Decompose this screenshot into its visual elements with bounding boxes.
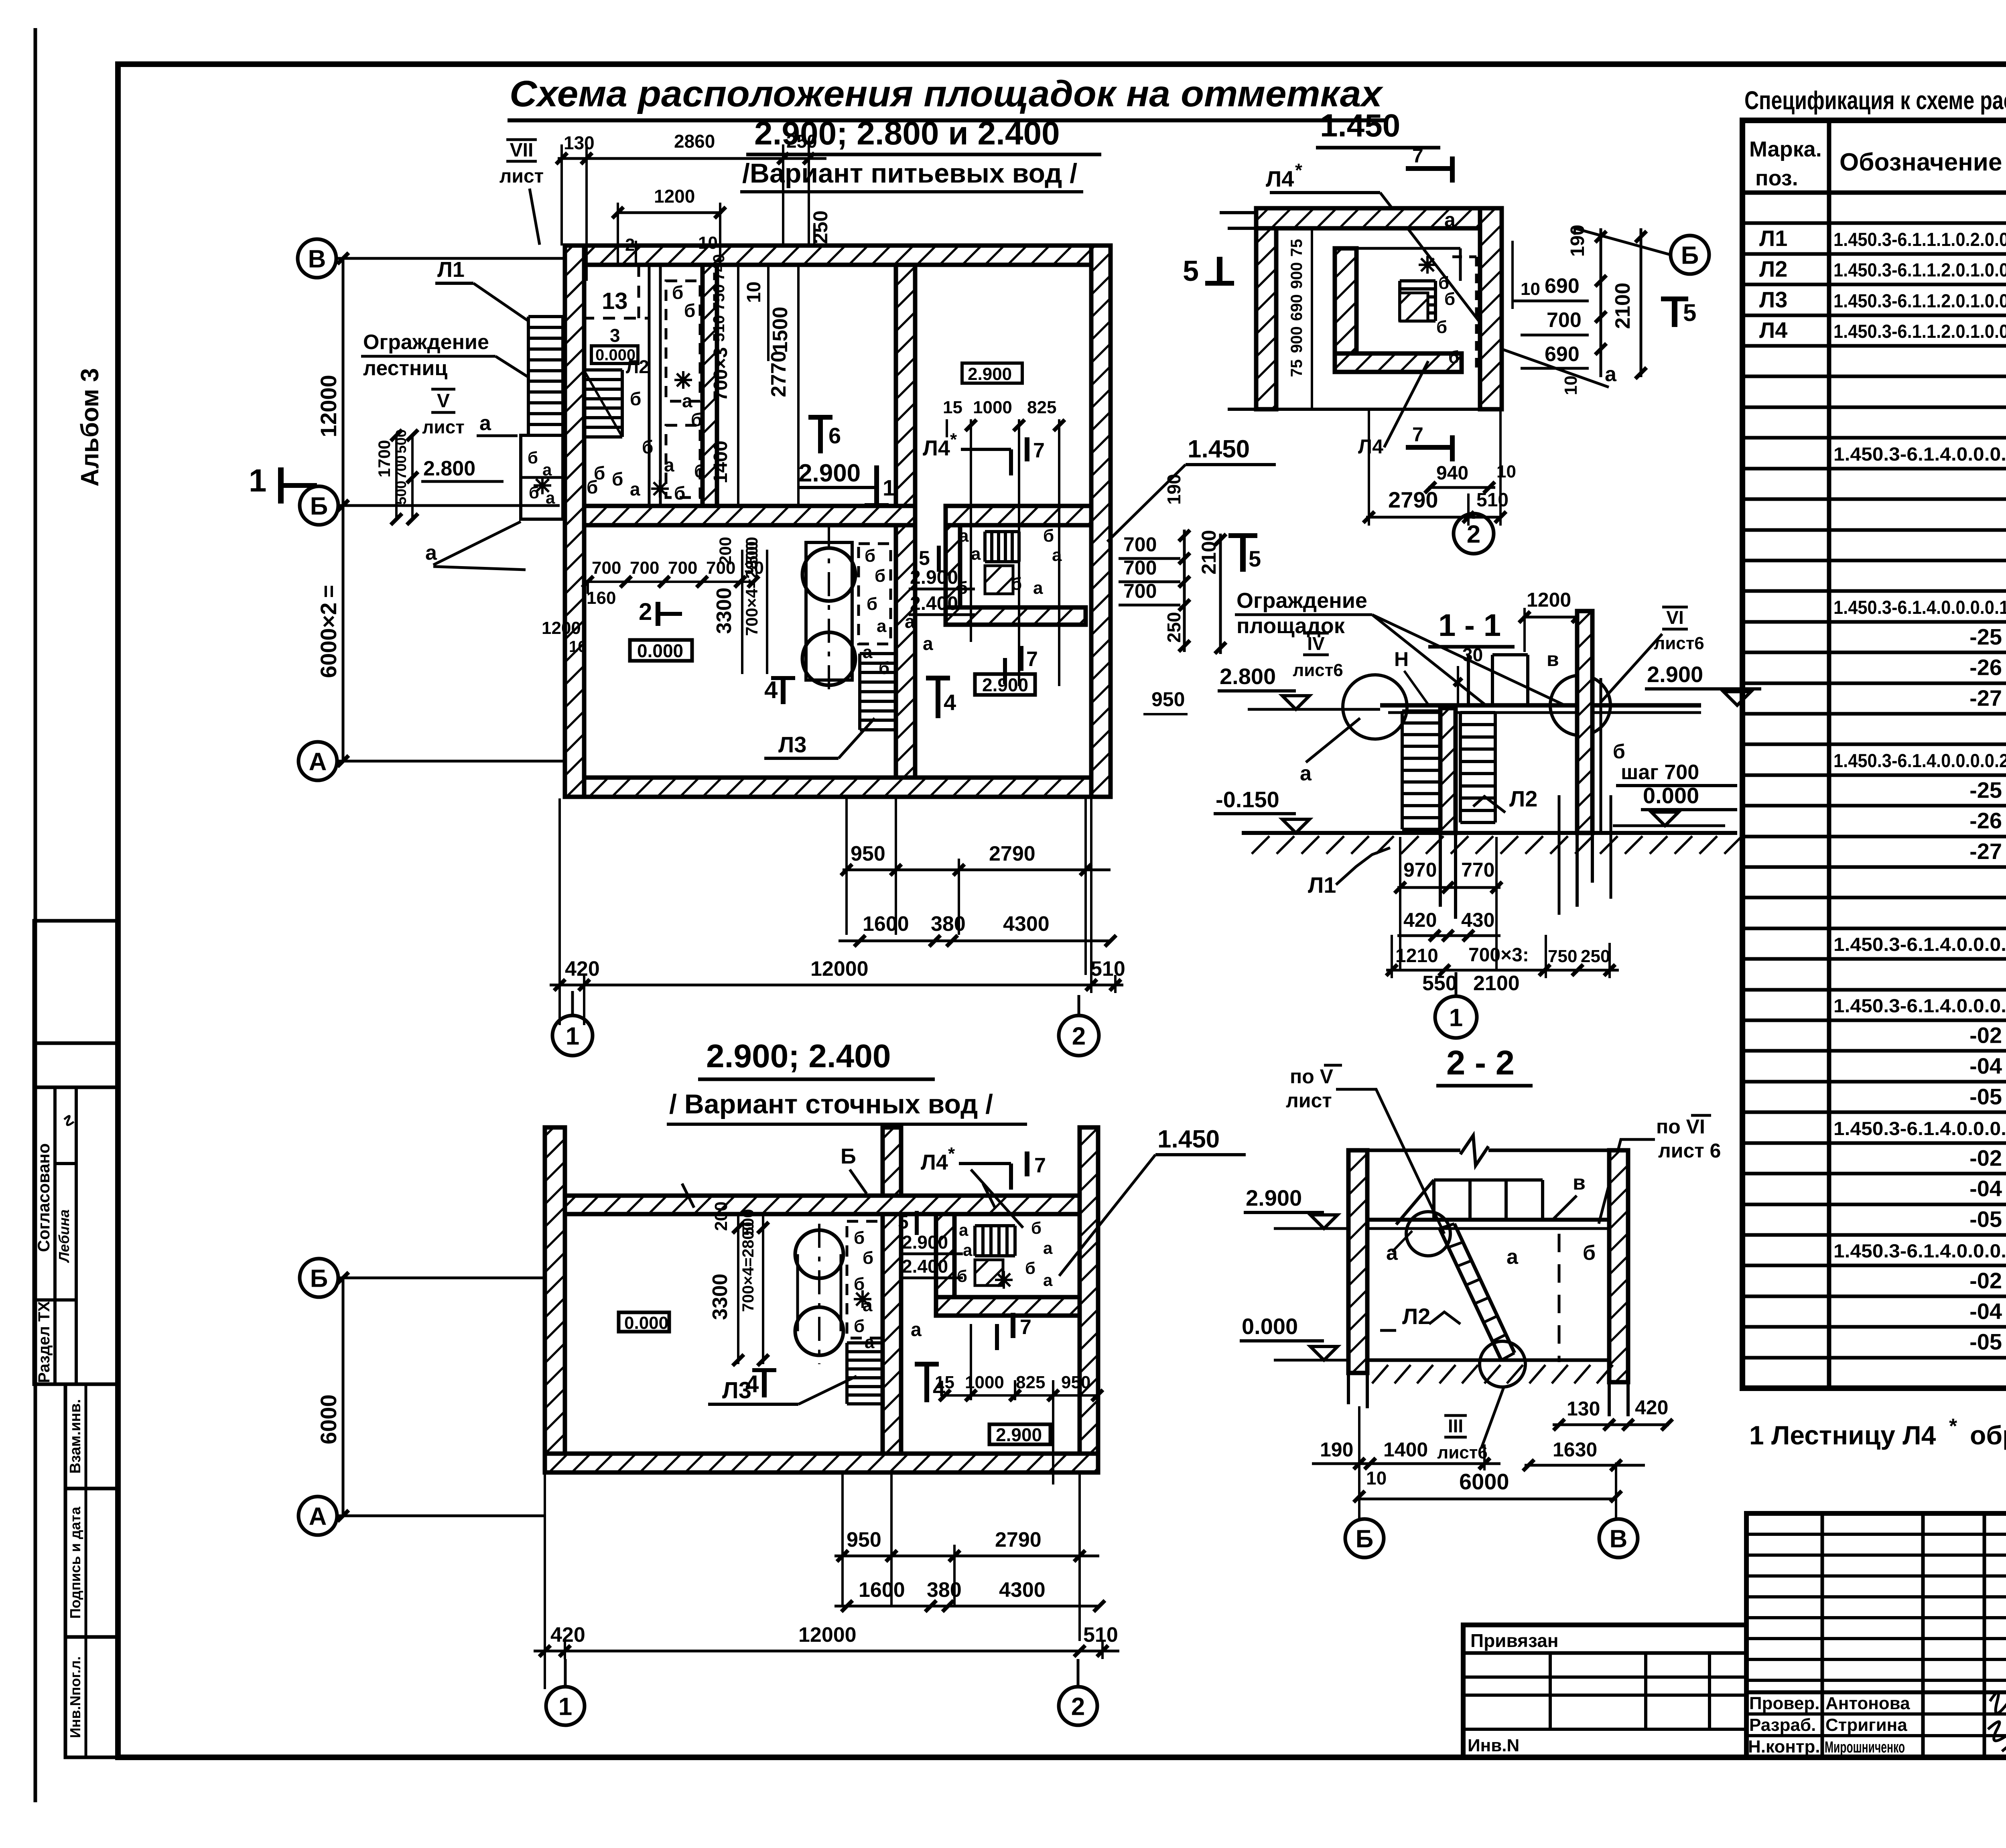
- spec table outer frame: [1742, 120, 2006, 1388]
- plan1 inner vertical wall upper: [896, 265, 915, 506]
- section 2-2 top line with break: [1348, 1149, 1460, 1152]
- svg-text:200: 200: [716, 537, 735, 565]
- svg-text:в: в: [1547, 648, 1559, 670]
- svg-text:б: б: [612, 469, 623, 489]
- section 2-2 railing grid: [1434, 1178, 1543, 1182]
- svg-text:лист: лист: [1286, 1089, 1332, 1112]
- svg-text:550: 550: [1422, 972, 1457, 995]
- svg-text:поз.: поз.: [1755, 166, 1798, 190]
- plan1 axis circle 2: [1059, 1015, 1099, 1056]
- svg-text:б: б: [672, 282, 683, 303]
- plan2 landing stair top right: [975, 1224, 1015, 1227]
- svg-text:*: *: [1949, 1415, 1957, 1438]
- plan1 outer wall top: [565, 246, 1111, 265]
- svg-text:б: б: [854, 1228, 865, 1248]
- svg-text:Л4: Л4: [1266, 166, 1294, 191]
- svg-text:2790: 2790: [1388, 487, 1438, 512]
- plan1 landing-room west wall: [946, 525, 960, 607]
- svg-text:б: б: [1613, 740, 1625, 763]
- plan1 hatched partition band: [703, 265, 717, 506]
- svg-text:2790: 2790: [989, 842, 1035, 865]
- svg-text:500: 500: [742, 537, 761, 565]
- plan2 snowflake landing: [995, 1271, 1013, 1289]
- plan1 inner vertical wall lower: [896, 525, 915, 778]
- detail 1.450 axis circle 2: [1454, 514, 1494, 554]
- svg-text:б: б: [684, 300, 695, 321]
- svg-text:в: в: [1573, 1171, 1586, 1194]
- svg-text:Спецификация к схеме расположе: Спецификация к схеме расположения площад…: [1744, 86, 2006, 115]
- svg-text:а: а: [1300, 762, 1312, 785]
- svg-text:380: 380: [931, 912, 966, 936]
- svg-text:Л2: Л2: [1402, 1304, 1430, 1329]
- section 1-1 platform line: [1380, 703, 1701, 708]
- section 1-1 right stair flight: [1459, 713, 1462, 822]
- svg-text:/Вариант питьевых вод /: /Вариант питьевых вод /: [742, 158, 1077, 189]
- svg-text:75: 75: [1288, 239, 1306, 257]
- svg-text:6: 6: [828, 423, 841, 448]
- plan1 small left dims: [395, 435, 398, 519]
- svg-text:10: 10: [743, 282, 765, 303]
- svg-text:1: 1: [566, 1022, 579, 1050]
- plan1 axis circle Б: [300, 486, 338, 525]
- svg-text:*: *: [948, 1144, 955, 1164]
- plan1 external stair L1: [527, 317, 530, 435]
- svg-text:250: 250: [1163, 612, 1184, 643]
- svg-text:А: А: [309, 748, 327, 776]
- svg-text:а: а: [425, 541, 437, 565]
- svg-text:250: 250: [786, 131, 817, 152]
- plan1 tank circle 2: [802, 632, 855, 685]
- svg-text:1000: 1000: [973, 398, 1012, 417]
- title block: upper small-cell grid: [1746, 1513, 2006, 1757]
- svg-text:690: 690: [1545, 343, 1580, 366]
- detail 1.450 dashed zone: [1452, 256, 1476, 258]
- title block: left box Привязан: [1463, 1625, 1746, 1757]
- svg-text:6000×2 =: 6000×2 =: [316, 585, 341, 678]
- svg-text:6000: 6000: [316, 1394, 341, 1444]
- plan2 inner vertical wall: [883, 1214, 901, 1454]
- svg-text:а: а: [963, 1241, 973, 1259]
- svg-text:Б: Б: [1356, 1525, 1374, 1553]
- svg-text:1: 1: [1449, 1004, 1463, 1032]
- svg-text:лист6: лист6: [1437, 1443, 1488, 1462]
- svg-text:б: б: [1031, 1218, 1042, 1237]
- plan1 thin partition: [648, 265, 651, 506]
- svg-text:а: а: [664, 455, 674, 475]
- svg-text:4: 4: [764, 676, 778, 703]
- svg-text:Привязан: Привязан: [1470, 1630, 1559, 1651]
- svg-text:Ограждение: Ограждение: [1236, 589, 1367, 613]
- svg-text:700: 700: [393, 455, 409, 479]
- svg-text:420: 420: [1635, 1396, 1668, 1419]
- svg-text:940: 940: [1436, 463, 1468, 484]
- svg-text:а: а: [1052, 545, 1062, 565]
- svg-text:VII: VII: [510, 140, 534, 161]
- svg-text:Л3: Л3: [778, 732, 806, 757]
- svg-text:-25: -25: [1969, 777, 2002, 802]
- plan2 outer wall right: [1080, 1127, 1098, 1454]
- section 1-1 right wall: [1577, 611, 1592, 833]
- plan2 wall stub above (mid): [883, 1127, 901, 1196]
- svg-text:7: 7: [1033, 439, 1045, 462]
- svg-text:Б: Б: [310, 1265, 328, 1292]
- svg-text:160: 160: [587, 588, 616, 608]
- svg-text:950: 950: [851, 842, 885, 865]
- svg-text:площадок: площадок: [1236, 614, 1345, 638]
- detail 1.450 axis circle Б: [1671, 236, 1709, 274]
- svg-text:1: 1: [249, 463, 267, 498]
- svg-text:*: *: [950, 430, 957, 449]
- plan2 outer wall top: [565, 1196, 1080, 1214]
- svg-text:б: б: [1011, 574, 1022, 594]
- svg-text:по VI: по VI: [1656, 1115, 1705, 1138]
- svg-text:1 - 1: 1 - 1: [1438, 607, 1501, 643]
- svg-text:б: б: [642, 437, 653, 457]
- section 1-1 left detail bubble: [1343, 675, 1407, 739]
- svg-text:-26: -26: [1969, 808, 2002, 833]
- section 2-2 bottom detail bubble: [1480, 1341, 1525, 1387]
- svg-text:700×3:: 700×3:: [1468, 944, 1529, 966]
- svg-text:а: а: [923, 633, 933, 654]
- svg-text:770: 770: [1461, 859, 1494, 881]
- svg-text:Провер.: Провер.: [1749, 1694, 1819, 1713]
- svg-text:по V: по V: [1290, 1065, 1334, 1088]
- svg-text:Инв.N: Инв.N: [1468, 1736, 1519, 1755]
- svg-text:700: 700: [592, 558, 621, 578]
- svg-text:2.900: 2.900: [968, 364, 1012, 384]
- svg-text:5: 5: [919, 547, 930, 569]
- section 2-2 axis circle Б: [1345, 1519, 1384, 1558]
- svg-text:1400: 1400: [710, 441, 731, 483]
- svg-text:2: 2: [639, 598, 652, 625]
- plan1 T4 mark: [936, 678, 940, 718]
- detail 1.450 inner L wall: [1335, 248, 1356, 372]
- svg-text:Л3: Л3: [1759, 287, 1787, 312]
- svg-text:б: б: [854, 1316, 865, 1336]
- plan2 snowflake: [854, 1290, 871, 1308]
- svg-text:700: 700: [630, 558, 659, 578]
- svg-text:1.450: 1.450: [1157, 1125, 1220, 1153]
- svg-text:Лебина: Лебина: [56, 1209, 72, 1263]
- svg-text:/ Вариант сточных вод /: / Вариант сточных вод /: [669, 1089, 993, 1119]
- svg-text:5: 5: [1183, 255, 1199, 287]
- svg-text:7: 7: [1412, 423, 1423, 446]
- plan1 T6 section mark: [818, 417, 823, 453]
- svg-text:б: б: [875, 566, 885, 586]
- svg-text:2 - 2: 2 - 2: [1446, 1044, 1515, 1082]
- svg-text:-05: -05: [1969, 1206, 2002, 1232]
- plan1 tank enclosure: [806, 542, 852, 680]
- svg-text:б: б: [863, 1248, 873, 1268]
- svg-text:-05: -05: [1969, 1329, 2002, 1355]
- svg-text:190: 190: [1163, 474, 1184, 505]
- plan1 outer wall bottom: [565, 778, 1111, 797]
- svg-text:б: б: [957, 1267, 967, 1285]
- plan1 stair L2: [582, 370, 585, 437]
- svg-text:1200: 1200: [654, 186, 695, 207]
- title block: signatures squiggles: [1990, 1692, 2006, 1714]
- left stamp column boxes: [34, 921, 118, 1043]
- plan2 axis circle А: [298, 1497, 337, 1535]
- svg-text:1.450.3-6.1.4.0.0.0.0.3: 1.450.3-6.1.4.0.0.0.0.3: [1833, 1240, 2006, 1261]
- svg-text:750: 750: [1548, 946, 1577, 966]
- plan1 axis circle А: [298, 742, 337, 780]
- svg-text:2790: 2790: [995, 1528, 1042, 1552]
- svg-text:а: а: [959, 526, 969, 546]
- svg-text:1.450: 1.450: [1320, 108, 1400, 143]
- svg-text:Б: Б: [310, 492, 328, 520]
- svg-text:2.900: 2.900: [982, 674, 1028, 695]
- svg-text:Подпись и дата: Подпись и дата: [67, 1507, 83, 1619]
- svg-text:700: 700: [668, 558, 697, 578]
- plan1 snowflake on landing: [534, 477, 551, 494]
- plan1 axis circle 1: [552, 1015, 593, 1056]
- svg-text:а: а: [971, 544, 981, 564]
- svg-text:лестниц: лестниц: [363, 357, 447, 380]
- svg-text:б: б: [1448, 347, 1459, 367]
- svg-text:950: 950: [1151, 688, 1185, 711]
- section 2-2 top detail bubble: [1406, 1212, 1450, 1256]
- svg-text:Схема расположения площадок: Схема расположения площадок на отметках: [510, 73, 1384, 114]
- svg-text:2.900: 2.900: [902, 1232, 948, 1253]
- svg-text:-27: -27: [1969, 839, 2002, 864]
- svg-text:750: 750: [710, 284, 728, 311]
- svg-text:а: а: [905, 611, 915, 632]
- svg-text:а: а: [1605, 363, 1617, 386]
- svg-text:2.400: 2.400: [902, 1256, 948, 1277]
- svg-text:III: III: [1448, 1415, 1463, 1436]
- svg-text:1400: 1400: [1383, 1438, 1428, 1461]
- svg-text:7: 7: [1412, 144, 1423, 167]
- svg-text:Л1: Л1: [437, 258, 465, 282]
- svg-text:420: 420: [565, 957, 600, 981]
- svg-text:Л4: Л4: [923, 436, 950, 460]
- plan2 outer wall bottom: [545, 1454, 1098, 1472]
- svg-text:10: 10: [569, 638, 587, 656]
- svg-text:0.000: 0.000: [1242, 1314, 1298, 1339]
- svg-text:Л4: Л4: [1759, 317, 1787, 343]
- svg-text:6000: 6000: [1459, 1469, 1509, 1494]
- svg-text:7: 7: [1034, 1154, 1046, 1177]
- plan1 dashed zone right of tanks: [859, 544, 891, 644]
- svg-text:2100: 2100: [1611, 282, 1634, 329]
- svg-text:а: а: [877, 616, 887, 636]
- svg-text:1 Лестницу Л4: 1 Лестницу Л4: [1749, 1420, 1936, 1450]
- svg-text:2.900: 2.900: [798, 459, 861, 487]
- plan2 tank connecting lines: [796, 1254, 799, 1331]
- svg-text:б: б: [1025, 1259, 1035, 1277]
- svg-text:4300: 4300: [999, 1578, 1046, 1602]
- svg-text:825: 825: [1016, 1373, 1045, 1392]
- svg-text:1.450.3-6.1.4.0.0.0.0.2-22: 1.450.3-6.1.4.0.0.0.0.2-22: [1833, 750, 2006, 771]
- svg-text:1600: 1600: [863, 912, 909, 936]
- svg-text:970: 970: [1403, 859, 1437, 881]
- svg-text:2: 2: [1071, 1693, 1085, 1720]
- svg-text:12000: 12000: [810, 957, 869, 981]
- plan1 stair L3: [858, 654, 861, 730]
- svg-text:лист6: лист6: [1293, 660, 1343, 680]
- section 2-2 stair Л2 diagonal: [1440, 1229, 1501, 1360]
- plan1 axis circle В: [298, 239, 336, 278]
- svg-text:Б: Б: [1681, 242, 1699, 269]
- plan2 axis circle Б: [300, 1259, 338, 1297]
- plan1 mark 7 lower: [1003, 658, 1007, 684]
- svg-text:380: 380: [927, 1578, 962, 1602]
- svg-text:3300: 3300: [713, 587, 736, 634]
- svg-text:VI: VI: [1666, 607, 1683, 628]
- svg-text:10: 10: [698, 233, 718, 253]
- svg-text:250: 250: [1581, 946, 1610, 966]
- plan2 tank circle 2: [795, 1307, 843, 1355]
- detail 1.450 walls: [1256, 208, 1276, 409]
- svg-text:5: 5: [1683, 299, 1696, 326]
- svg-text:Л4: Л4: [1358, 435, 1383, 458]
- svg-text:-04: -04: [1969, 1298, 2002, 1324]
- plan2 axis circle 1: [546, 1687, 585, 1725]
- svg-text:-27: -27: [1969, 685, 2002, 711]
- svg-text:1500: 1500: [769, 307, 792, 353]
- svg-text:10: 10: [1561, 376, 1581, 395]
- section 1-1 ground line: [1242, 831, 1737, 835]
- svg-text:2: 2: [625, 235, 635, 255]
- svg-text:Л2: Л2: [1759, 256, 1787, 281]
- svg-text:шаг 700: шаг 700: [1621, 761, 1699, 784]
- svg-text:Обозначение: Обозначение: [1840, 148, 2002, 176]
- svg-text:2.800: 2.800: [423, 457, 475, 480]
- svg-text:Разраб.: Разраб.: [1749, 1715, 1816, 1735]
- svg-text:1: 1: [558, 1693, 572, 1720]
- plan2 small room wall vertical: [936, 1214, 954, 1297]
- svg-text:IV: IV: [1307, 633, 1325, 654]
- svg-text:75: 75: [1288, 359, 1306, 378]
- svg-text:510: 510: [1083, 1623, 1118, 1647]
- svg-text:Л1: Л1: [1759, 225, 1787, 251]
- svg-text:б: б: [879, 658, 889, 678]
- svg-text:-0.150: -0.150: [1216, 787, 1279, 812]
- svg-text:5: 5: [898, 1212, 909, 1233]
- svg-text:420: 420: [1403, 909, 1437, 931]
- svg-text:200: 200: [711, 1202, 731, 1231]
- plan2 0.000 box: [619, 1312, 669, 1332]
- svg-text:825: 825: [1027, 398, 1056, 417]
- svg-text:Мирошниченко: Мирошниченко: [1825, 1738, 1905, 1756]
- plan1 T1 section mark: [874, 465, 879, 506]
- svg-text:а: а: [1043, 1271, 1053, 1290]
- svg-text:1.450.3-6.1.1.2.0.1.0.0-04: 1.450.3-6.1.1.2.0.1.0.0-04: [1833, 259, 2006, 280]
- svg-text:3300: 3300: [709, 1273, 732, 1320]
- svg-text:-25: -25: [1969, 624, 2002, 649]
- plan1 0.000 box bottom room: [630, 640, 692, 661]
- section 1-1 left stair flight: [1401, 711, 1404, 829]
- plan1 outer wall left: [565, 246, 584, 797]
- svg-text:0.000: 0.000: [637, 640, 683, 661]
- svg-text:15: 15: [935, 1373, 954, 1392]
- plan2 tanks center line: [818, 1224, 820, 1364]
- section 2-2 below-ground stubs: [1366, 1373, 1369, 1408]
- svg-text:700: 700: [1123, 556, 1157, 579]
- svg-text:а: а: [682, 390, 692, 411]
- svg-text:-26: -26: [1969, 655, 2002, 680]
- svg-text:1.450.3-6.1.1.2.0.1.0.0-01: 1.450.3-6.1.1.2.0.1.0.0-01: [1833, 321, 2006, 342]
- section 1-1 right detail bubble: [1550, 675, 1610, 735]
- svg-text:690: 690: [1288, 294, 1306, 321]
- svg-text:б: б: [1043, 526, 1054, 546]
- svg-text:1: 1: [883, 475, 895, 500]
- section 2-2 ground hatch: [1372, 1365, 1613, 1383]
- svg-text:1.450.3-6.1.4.0.0.0.0.1-22: 1.450.3-6.1.4.0.0.0.0.1-22: [1833, 597, 2006, 618]
- svg-text:Марка.: Марка.: [1749, 137, 1822, 161]
- svg-text:Б: Б: [841, 1144, 856, 1168]
- svg-text:2.900: 2.900: [1647, 662, 1703, 687]
- svg-text:700: 700: [1123, 580, 1157, 602]
- svg-text:1200: 1200: [542, 618, 581, 638]
- svg-text:лист 6: лист 6: [1658, 1139, 1721, 1162]
- plan1 landing-room south band: [946, 607, 1086, 625]
- svg-text:2860: 2860: [674, 131, 715, 152]
- plan2 outer wall left: [545, 1127, 565, 1472]
- svg-text:-02: -02: [1969, 1023, 2002, 1048]
- page left edge line: [34, 28, 37, 1802]
- svg-text:Л2: Л2: [1509, 786, 1537, 811]
- svg-text:30: 30: [1462, 644, 1483, 665]
- svg-text:510: 510: [1090, 957, 1125, 981]
- section 1-1 below-ground wall stubs: [1439, 833, 1442, 907]
- plan2 stair Л3: [845, 1343, 849, 1404]
- svg-text:Антонова: Антонова: [1825, 1694, 1910, 1713]
- svg-text:3: 3: [610, 325, 620, 346]
- svg-text:Инв.Nпог.л.: Инв.Nпог.л.: [67, 1656, 83, 1738]
- svg-text:4: 4: [944, 690, 956, 715]
- svg-text:5: 5: [1249, 546, 1261, 571]
- svg-text:а: а: [479, 412, 491, 435]
- svg-text:1600: 1600: [859, 1578, 905, 1602]
- svg-text:2.900: 2.900: [996, 1424, 1042, 1445]
- svg-text:10: 10: [1366, 1468, 1387, 1489]
- plan1 dashed equipment boxes top: [666, 281, 700, 401]
- svg-text:130: 130: [1567, 1397, 1600, 1420]
- svg-text:-02: -02: [1969, 1268, 2002, 1293]
- plan1 mid wall right part: [946, 506, 1091, 525]
- plan2 axis circle 2: [1059, 1687, 1097, 1725]
- section 1-1 axis circle 1: [1435, 996, 1477, 1038]
- svg-text:обрезать снизу на 360 мм: обрезать снизу на 360 мм: [1970, 1420, 2006, 1450]
- svg-text:б: б: [1583, 1241, 1596, 1265]
- svg-text:1210: 1210: [1395, 945, 1438, 967]
- spec table row lines: [1742, 221, 2006, 225]
- plan1 2.900 box lower right: [975, 674, 1035, 695]
- svg-text:Ограждение: Ограждение: [363, 331, 489, 354]
- svg-text:4: 4: [745, 1371, 759, 1397]
- svg-text:а: а: [1444, 209, 1456, 231]
- svg-text:1.450.3-6.1.4.0.0.0.0.2: 1.450.3-6.1.4.0.0.0.0.2: [1833, 1118, 2006, 1139]
- plan1 mid wall left part: [584, 506, 915, 525]
- svg-text:13: 13: [602, 288, 628, 314]
- spec table column lines: [1827, 120, 1831, 1388]
- svg-text:а: а: [1043, 1239, 1053, 1257]
- plan1 landing room stair: [985, 530, 1019, 533]
- detail 1.450 mark 5 right: [1672, 301, 1677, 327]
- svg-text:190: 190: [1320, 1438, 1353, 1461]
- svg-text:V: V: [437, 390, 450, 412]
- plan2 mark 7 lower: [995, 1324, 999, 1350]
- svg-text:б: б: [691, 409, 702, 430]
- svg-text:В: В: [1610, 1525, 1628, 1553]
- svg-text:Н.контр.: Н.контр.: [1748, 1737, 1820, 1757]
- section 2-2 left wall: [1348, 1150, 1367, 1373]
- svg-text:900: 900: [1288, 326, 1306, 353]
- svg-text:б: б: [867, 594, 877, 614]
- plan2 top-wall break marks: [682, 1184, 694, 1208]
